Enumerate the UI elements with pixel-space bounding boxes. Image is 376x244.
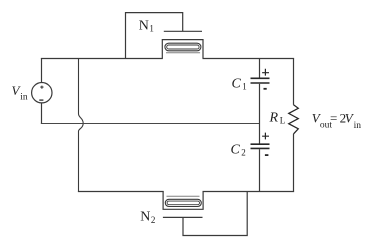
C2 plus sign	[262, 133, 269, 140]
wire top rail right	[203, 58, 295, 60]
wire middle rail	[41, 123, 260, 125]
wire left branch top	[41, 58, 43, 83]
transistor N2	[163, 192, 247, 236]
C2 plate bottom	[251, 147, 270, 149]
svg-text:L: L	[280, 116, 286, 126]
N1 channel trench	[162, 40, 203, 59]
N2 channel pill outer	[165, 199, 201, 206]
svg-text:R: R	[269, 110, 279, 125]
capacitor C2	[251, 124, 270, 192]
wire top rail left	[41, 58, 163, 60]
wire C2 top	[259, 124, 261, 144]
svg-text:in: in	[354, 121, 362, 131]
svg-text:1: 1	[149, 24, 154, 34]
N2 gate bar	[163, 216, 203, 218]
wire N1 gate box	[126, 13, 183, 59]
wire C2 bottom	[259, 149, 261, 191]
transistor N1	[126, 13, 204, 59]
wire bottom rail left	[78, 191, 164, 193]
wire N2 gate return	[183, 192, 247, 236]
wire hop branch (crossover, no connection)	[79, 59, 84, 192]
svg-text:2: 2	[241, 148, 246, 158]
svg-text:C: C	[232, 76, 242, 91]
N1 substrate line	[166, 52, 200, 54]
C2 plate top	[251, 143, 270, 145]
svg-text:2: 2	[151, 215, 156, 225]
C1 minus sign	[264, 88, 267, 90]
C1 plate bottom	[251, 82, 270, 84]
N1 channel pill outer	[165, 43, 201, 51]
wire C1 top	[259, 59, 261, 78]
RL zigzag	[289, 105, 299, 134]
svg-text:C: C	[231, 142, 241, 157]
wire bottom rail right	[203, 191, 295, 193]
C1 plus sign	[262, 69, 269, 76]
svg-text:N: N	[140, 210, 150, 225]
resistor RL	[289, 59, 299, 192]
svg-text:N: N	[139, 18, 149, 33]
voltage source Vin	[32, 83, 52, 103]
N1 channel pill inner	[167, 45, 199, 49]
C2 minus sign	[265, 154, 269, 156]
svg-text:=: =	[330, 111, 337, 126]
N2 channel pill inner	[167, 201, 199, 205]
svg-text:1: 1	[242, 82, 247, 92]
N1 gate bar	[164, 30, 202, 32]
C1 plate top	[251, 77, 270, 79]
wire C1 bottom	[259, 84, 261, 124]
wire RL bottom	[293, 134, 295, 192]
N2 channel trench	[163, 192, 203, 210]
N2 substrate line	[167, 195, 200, 197]
capacitor C1	[251, 59, 270, 124]
svg-text:in: in	[20, 93, 28, 103]
wire RL top	[293, 59, 295, 105]
wire left branch bottom	[41, 103, 43, 124]
